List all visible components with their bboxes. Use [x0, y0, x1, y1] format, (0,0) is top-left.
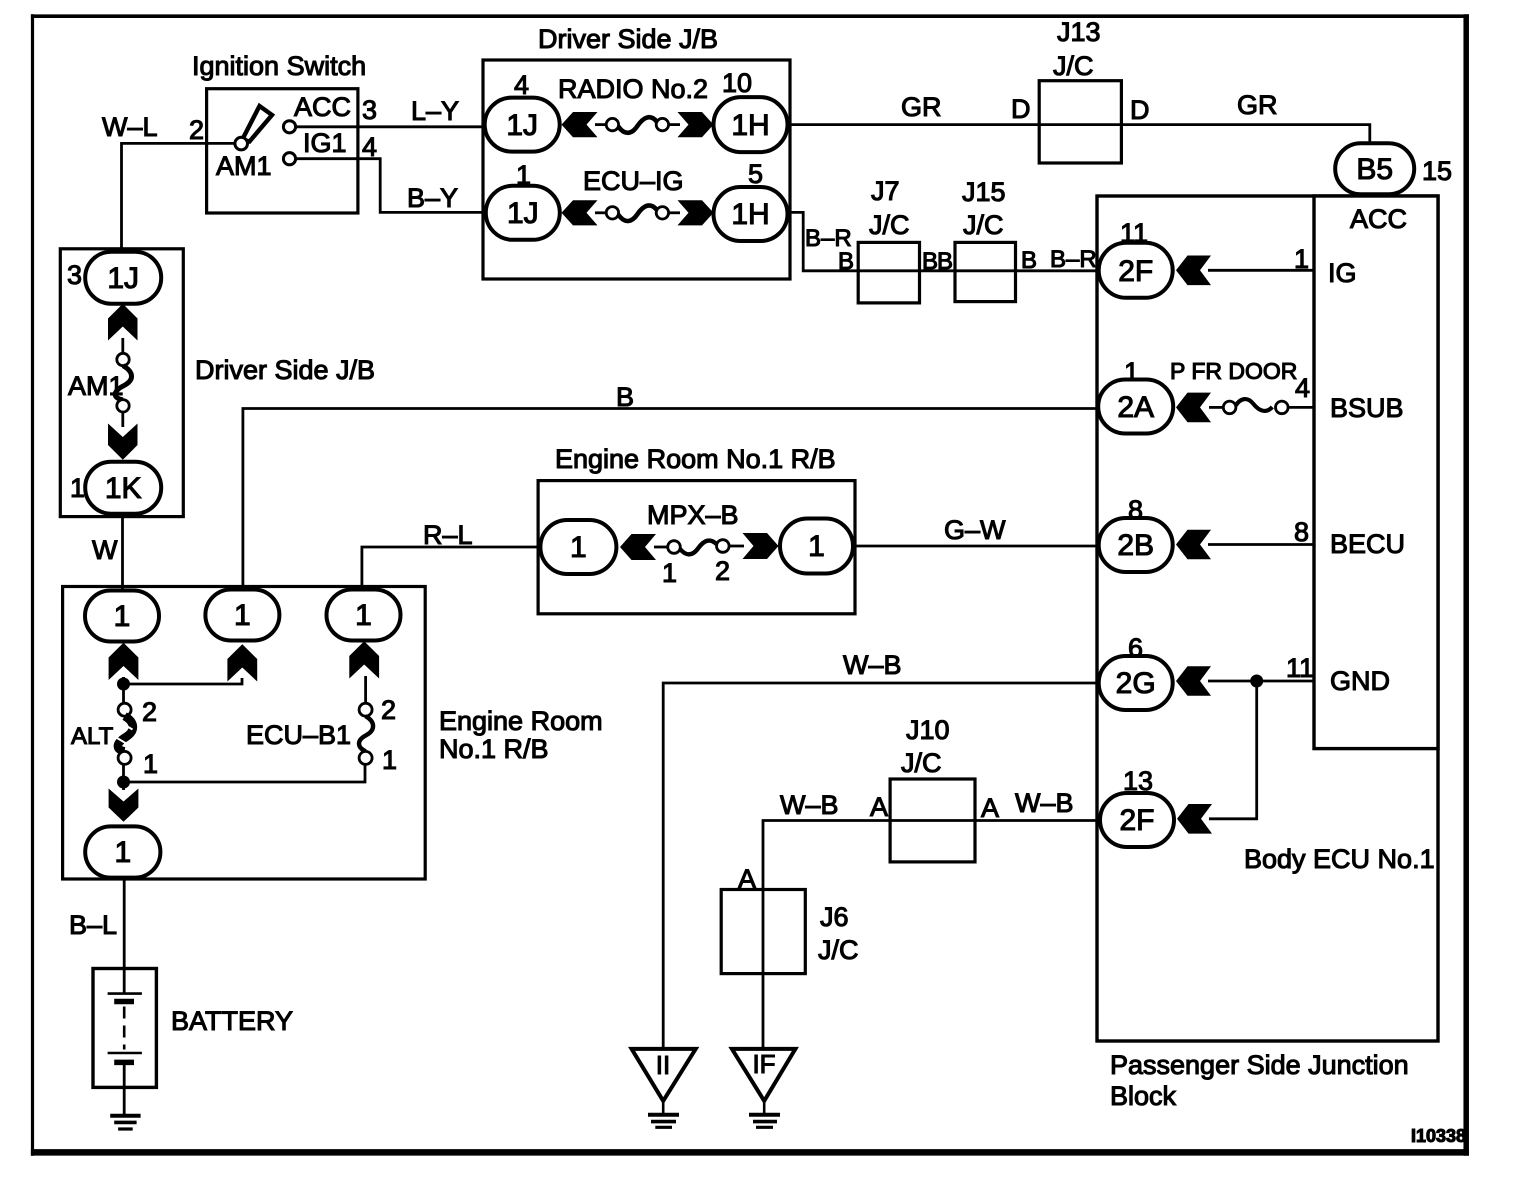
switch SW1 Ignition Switch box — [207, 89, 358, 213]
relay block Engine Room No.1 R/B box — [63, 587, 426, 880]
fuse P FR DOOR element — [1209, 406, 1224, 409]
connector 1 right top — [327, 590, 401, 641]
battery plate short thick — [114, 999, 134, 1005]
svg-text:Driver Side J/B: Driver Side J/B — [195, 355, 375, 385]
ground IF bars — [749, 1113, 780, 1117]
SECTION: battery — [69, 878, 293, 1130]
svg-text:B: B — [922, 248, 938, 275]
svg-text:1J: 1J — [506, 109, 538, 142]
svg-text:ECU–IG: ECU–IG — [583, 166, 684, 196]
svg-text:Passenger Side Junction: Passenger Side Junction — [1110, 1050, 1409, 1080]
fuse ECU-IG arrow right — [678, 200, 714, 225]
svg-text:J15: J15 — [962, 177, 1006, 207]
junction block Driver Side J/B box — [483, 60, 790, 279]
svg-text:1: 1 — [114, 600, 131, 633]
SECTION: grounds J10 J6 — [632, 650, 1100, 1127]
fuse MPX-B element — [668, 541, 681, 554]
wire branch to ECU-B1 — [124, 764, 366, 782]
svg-text:BATTERY: BATTERY — [171, 1006, 293, 1036]
svg-text:II: II — [656, 1050, 670, 1080]
connector 1J RADIO — [485, 98, 560, 152]
arrow 2F IG — [1176, 256, 1211, 286]
ground IF triangle — [732, 1049, 796, 1101]
ECU Body ECU No.1 box — [1314, 196, 1438, 749]
wire R-L — [362, 547, 540, 591]
fuse RADIO No.2 wire — [595, 123, 608, 126]
fuse RADIO No.2 arrow left — [562, 112, 598, 137]
SECTION: left driver JB — [60, 249, 375, 592]
svg-text:1: 1 — [808, 530, 825, 563]
svg-text:1: 1 — [114, 836, 131, 869]
svg-text:J7: J7 — [871, 176, 900, 206]
svg-text:8: 8 — [1294, 517, 1309, 547]
battery center dashed — [123, 1007, 126, 1050]
svg-text:B–Y: B–Y — [407, 183, 458, 213]
connector 1 middle top — [205, 590, 279, 641]
svg-text:Driver Side J/B: Driver Side J/B — [538, 24, 718, 54]
svg-text:Body ECU No.1: Body ECU No.1 — [1244, 844, 1435, 874]
SECTION: mpx — [362, 444, 1100, 614]
arrow up under oval 1 — [109, 643, 139, 680]
wire W from 1K to engine room — [121, 514, 124, 592]
fuse ALT element — [118, 703, 131, 716]
fuse ECU-IG element — [606, 207, 618, 219]
wire W-B from 2G to ground II — [663, 683, 1099, 1049]
connector 1K — [85, 462, 161, 514]
connector 1 battery feed — [85, 826, 160, 877]
arrow 2G — [1176, 666, 1211, 696]
battery plate positive long — [108, 992, 142, 995]
svg-text:B–R: B–R — [1050, 246, 1097, 273]
switch lever — [242, 106, 272, 142]
svg-text:2: 2 — [381, 695, 396, 725]
connector 1J left — [85, 252, 161, 304]
junction connector J6 J/C box — [721, 890, 805, 974]
svg-text:J6: J6 — [820, 902, 849, 932]
ground II triangle — [632, 1049, 696, 1101]
svg-text:I10338: I10338 — [1411, 1126, 1466, 1146]
svg-text:W–B: W–B — [1015, 788, 1074, 818]
svg-text:BSUB: BSUB — [1330, 393, 1404, 423]
fuse MPX-B wire — [654, 546, 668, 549]
svg-text:IG: IG — [1328, 258, 1357, 288]
wire W-B from 2F through J10 to J6 — [763, 821, 1100, 1049]
svg-text:W–B: W–B — [780, 790, 839, 820]
wire D through J13 — [1039, 123, 1121, 126]
svg-text:1J: 1J — [507, 197, 539, 230]
connector 1 ALT top — [85, 591, 159, 642]
arrow down to battery oval — [109, 789, 139, 822]
junction connector J7 J/C box — [858, 242, 919, 303]
svg-text:Engine Room No.1 R/B: Engine Room No.1 R/B — [555, 444, 836, 474]
svg-text:1H: 1H — [731, 198, 769, 231]
arrow 2B — [1176, 530, 1211, 560]
svg-text:1: 1 — [70, 473, 85, 503]
svg-text:GR: GR — [901, 92, 942, 122]
svg-text:4: 4 — [514, 70, 529, 100]
svg-text:B: B — [616, 382, 634, 412]
wire segment below fuse — [121, 412, 124, 427]
wire BECU — [1208, 543, 1314, 546]
svg-text:L–Y: L–Y — [411, 96, 459, 126]
svg-text:GND: GND — [1330, 666, 1390, 696]
svg-text:1J: 1J — [107, 262, 139, 295]
node junction dot ALT top — [117, 678, 130, 691]
svg-text:J13: J13 — [1057, 17, 1101, 47]
connector 2A BSUB row — [1098, 380, 1173, 434]
svg-text:J/C: J/C — [963, 210, 1004, 240]
wire GND — [1208, 680, 1314, 683]
fuse ECU-IG wire — [595, 211, 608, 214]
svg-text:ECU–B1: ECU–B1 — [246, 720, 351, 750]
svg-text:1: 1 — [570, 531, 587, 564]
contact IG1 — [283, 153, 295, 165]
connector 1 MPX right — [780, 519, 853, 574]
arrow up under oval 3 — [349, 641, 379, 678]
svg-text:Engine Room: Engine Room — [439, 706, 603, 736]
svg-text:1: 1 — [143, 749, 158, 779]
svg-text:2B: 2B — [1117, 529, 1154, 562]
svg-text:AM1: AM1 — [216, 151, 272, 181]
battery plate negative long — [108, 1052, 142, 1055]
wire W-L from AM1 to 1J — [122, 143, 236, 252]
svg-text:Ignition Switch: Ignition Switch — [192, 51, 366, 81]
svg-text:W–L: W–L — [102, 112, 158, 142]
svg-text:D: D — [1130, 95, 1150, 125]
svg-text:A: A — [870, 792, 888, 822]
connector 2F IG row — [1099, 243, 1173, 298]
node junction dot ALT bottom — [117, 776, 130, 789]
svg-text:2F: 2F — [1119, 804, 1154, 837]
svg-text:5: 5 — [748, 159, 763, 189]
junction block Passenger Side Junction Block box — [1097, 196, 1438, 1041]
svg-text:ACC: ACC — [294, 92, 351, 122]
battery BATTERY box — [93, 969, 156, 1088]
fuse ECU-B1 element — [359, 703, 372, 716]
svg-text:2F: 2F — [1118, 255, 1153, 288]
svg-text:11: 11 — [1286, 653, 1314, 683]
svg-text:AM1: AM1 — [68, 371, 124, 401]
svg-text:B5: B5 — [1356, 153, 1393, 186]
connector 1H RADIO — [714, 97, 788, 152]
svg-text:B: B — [1021, 247, 1037, 274]
svg-text:W: W — [92, 535, 118, 565]
svg-text:J10: J10 — [906, 715, 950, 745]
svg-text:1: 1 — [355, 599, 372, 632]
svg-text:R–L: R–L — [423, 520, 473, 550]
svg-text:1: 1 — [662, 558, 677, 588]
connector 2G GND row — [1099, 656, 1173, 710]
SECTION: driver side JB top — [483, 24, 790, 279]
wire IG — [1208, 269, 1314, 272]
arrow up AM1 — [108, 304, 138, 341]
fuse AM1 element — [117, 353, 129, 365]
svg-text:2: 2 — [189, 115, 204, 145]
svg-text:IF: IF — [752, 1049, 775, 1079]
svg-text:1: 1 — [382, 745, 397, 775]
node junction dot GND — [1250, 675, 1263, 688]
svg-text:10: 10 — [722, 68, 752, 98]
battery plate negative short thick — [114, 1060, 134, 1066]
fuse MPX-B arrow right — [743, 533, 779, 559]
wire ECU-B1 to arrow 3 — [364, 676, 367, 703]
svg-text:J/C: J/C — [1053, 51, 1094, 81]
arrow 2F W-B — [1177, 804, 1212, 834]
arrow down to 1K — [108, 424, 138, 460]
wire AM1 segment — [121, 338, 124, 354]
connector 2F W-B row — [1100, 793, 1174, 847]
SECTION: junction block right — [1097, 196, 1466, 1146]
SECTION: J7 J15 — [787, 176, 1099, 303]
svg-text:Block: Block — [1110, 1081, 1177, 1111]
svg-text:3: 3 — [362, 95, 377, 125]
svg-text:B: B — [838, 248, 854, 275]
wire B-R from 1H ECU-IG to 2F — [787, 212, 1099, 270]
svg-text:1: 1 — [234, 599, 251, 632]
SECTION: engine room left — [63, 382, 1100, 879]
svg-text:3: 3 — [67, 260, 82, 290]
wire battery to ground — [123, 1065, 126, 1114]
contact AM1 — [235, 137, 248, 150]
relay block Engine Room No.1 R/B MPX box — [538, 481, 855, 614]
arrow up under oval 2 — [227, 644, 257, 681]
wire IF stub — [763, 1101, 766, 1114]
svg-text:G–W: G–W — [944, 515, 1006, 545]
ground battery — [110, 1114, 140, 1118]
fuse RADIO No.2 arrow right — [678, 112, 714, 137]
svg-text:1H: 1H — [731, 109, 769, 142]
wire ALT vertical — [122, 677, 125, 704]
connector 1J ECU-IG — [486, 186, 560, 240]
svg-text:J/C: J/C — [901, 748, 942, 778]
svg-text:A: A — [981, 793, 999, 823]
svg-text:P FR DOOR: P FR DOOR — [1170, 358, 1297, 384]
svg-text:2A: 2A — [1117, 391, 1154, 424]
contact ACC — [283, 121, 295, 133]
svg-text:2: 2 — [142, 697, 157, 727]
wire from GND junction to 2F — [1209, 681, 1257, 819]
junction connector J15 J/C box — [955, 242, 1016, 301]
svg-text:J/C: J/C — [818, 935, 859, 965]
arrow 2A — [1176, 393, 1211, 423]
fuse MPX-B arrow left — [620, 534, 656, 560]
wire B from engine room to 2A — [243, 409, 1100, 591]
connector 2B BECU row — [1099, 518, 1173, 572]
svg-text:IG1: IG1 — [303, 128, 347, 158]
fuse RADIO No.2 element — [606, 118, 618, 130]
svg-text:4: 4 — [1295, 373, 1310, 403]
border frame — [31, 14, 34, 1156]
wire ACC to 1J fuse RADIO — [295, 125, 484, 128]
wire II stub — [662, 1101, 665, 1114]
svg-text:B–L: B–L — [69, 910, 117, 940]
SECTION: ignition switch — [102, 51, 484, 253]
svg-text:15: 15 — [1422, 156, 1452, 186]
svg-text:No.1 R/B: No.1 R/B — [439, 734, 549, 764]
SECTION: J13 B5 — [788, 17, 1453, 194]
ground II bars — [648, 1113, 679, 1117]
svg-text:ACC: ACC — [1350, 204, 1407, 234]
svg-text:GR: GR — [1237, 90, 1278, 120]
junction connector J13 J/C box — [1039, 81, 1121, 163]
svg-text:BECU: BECU — [1330, 529, 1405, 559]
wire IG1 to 1J fuse ECU-IG — [295, 159, 484, 213]
svg-text:J/C: J/C — [869, 210, 910, 240]
svg-text:ALT: ALT — [71, 723, 114, 750]
wire B-L from oval to battery — [123, 878, 126, 995]
svg-text:W–B: W–B — [843, 650, 902, 680]
svg-text:1: 1 — [1294, 244, 1309, 274]
svg-text:2: 2 — [715, 556, 730, 586]
svg-text:1K: 1K — [105, 472, 142, 505]
wire GR from 1H to B5 — [788, 125, 1370, 144]
svg-text:4: 4 — [362, 132, 377, 162]
svg-text:RADIO No.2: RADIO No.2 — [558, 74, 708, 104]
svg-text:2G: 2G — [1116, 667, 1156, 700]
wire branch to arrow 2 — [124, 678, 243, 684]
junction connector J10 J/C box — [890, 779, 975, 862]
wire G-W to 2B — [853, 545, 1100, 548]
svg-text:MPX–B: MPX–B — [647, 500, 739, 530]
junction block Driver Side J/B left box — [60, 249, 183, 517]
wire below ALT — [122, 764, 125, 790]
svg-text:D: D — [1011, 94, 1031, 124]
connector 1H ECU-IG — [714, 187, 788, 241]
svg-text:B: B — [937, 248, 953, 275]
connector 1 MPX left — [540, 520, 616, 574]
connector B5 — [1335, 143, 1414, 194]
fuse ECU-IG arrow left — [562, 200, 598, 225]
